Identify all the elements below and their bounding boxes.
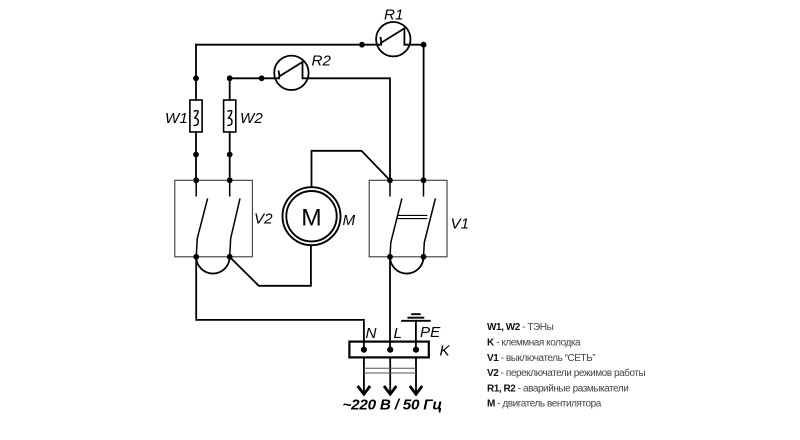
svg-text:W1: W1 — [165, 110, 188, 127]
svg-text:L: L — [394, 325, 402, 342]
svg-text:V2: V2 — [254, 211, 273, 228]
svg-text:V1 - выключатель “СЕТЬ”: V1 - выключатель “СЕТЬ” — [487, 353, 595, 364]
svg-text:K - клеммная колодка: K - клеммная колодка — [487, 338, 581, 349]
svg-text:V2 - переключатели режимов раб: V2 - переключатели режимов работы — [487, 367, 645, 379]
svg-text:M - двигатель вентилятора: M - двигатель вентилятора — [487, 399, 602, 410]
svg-text:PE: PE — [420, 324, 441, 341]
svg-text:R1, R2 - аварийные размыкатели: R1, R2 - аварийные размыкатели — [487, 383, 628, 394]
svg-text:R1: R1 — [384, 6, 403, 23]
svg-text:W1, W2 - ТЭНы: W1, W2 - ТЭНы — [487, 322, 554, 333]
svg-text:M: M — [301, 204, 321, 231]
svg-text:V1: V1 — [451, 216, 470, 233]
svg-text:W2: W2 — [240, 110, 263, 127]
svg-text:K: K — [440, 343, 451, 360]
svg-text:M: M — [343, 212, 356, 229]
svg-text:N: N — [366, 325, 377, 342]
svg-text:~220 В / 50 Гц: ~220 В / 50 Гц — [343, 396, 443, 413]
svg-text:R2: R2 — [312, 53, 332, 70]
